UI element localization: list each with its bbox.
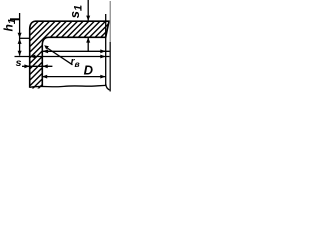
dimension h1: up arrow below plate bottom level xyxy=(18,39,22,44)
section hatching of plate and flange wall xyxy=(0,0,148,94)
left arrow on flange end line at wall outer face xyxy=(30,55,35,59)
dimension s: left-pointing arrow at wall inner face xyxy=(42,64,47,68)
dimension s: right-pointing arrow at wall outer face xyxy=(24,64,29,68)
dimension s1: down arrow at plate top xyxy=(86,16,90,21)
flange end / weld joint line (lower full-width line) xyxy=(15,56,110,58)
right arrow on flange end line xyxy=(100,55,105,59)
hook at bottom of extension line xyxy=(106,84,111,90)
dimension D: dimension line xyxy=(42,76,106,78)
dimension s1: tail line below plate xyxy=(87,37,89,51)
left arrow of upper diameter line xyxy=(42,49,48,53)
right arrow of upper diameter line xyxy=(100,49,105,53)
dimension s1: vertical dimension line above plate xyxy=(87,0,89,20)
radius rv: leader arrow to inner fillet xyxy=(44,45,49,49)
dimension D: right arrow xyxy=(100,75,105,79)
right border line xyxy=(109,1,111,42)
inner diameter dimension line (upper) xyxy=(42,50,109,52)
svg-text:s: s xyxy=(16,57,22,69)
dimension h1: top reference tick xyxy=(10,18,20,20)
dimension h1: extension line at plate bottom level xyxy=(20,37,30,39)
dimension h1: down arrow at flange end line xyxy=(18,51,22,56)
background xyxy=(0,0,114,93)
dimension s: dimension line xyxy=(22,65,52,67)
dimension s1: up arrow at plate bottom xyxy=(86,37,90,42)
dimension D: left arrow xyxy=(42,75,47,79)
wavy break line at bottom of shell xyxy=(30,85,106,87)
dimension h1: down arrow at plate bottom level xyxy=(18,33,22,38)
svg-text:D: D xyxy=(84,63,94,78)
body outline xyxy=(30,21,109,88)
radius rv: leader line xyxy=(47,48,73,65)
dimension h1: vertical dimension line xyxy=(19,13,21,56)
svg-text:rв: rв xyxy=(71,57,80,70)
right extension line at break xyxy=(105,14,107,85)
